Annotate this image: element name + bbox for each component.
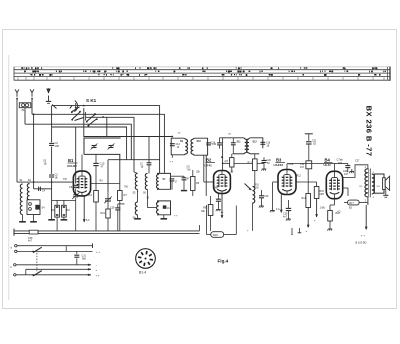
wire bus3 (86, 117, 134, 172)
wire osc caps link (171, 175, 185, 177)
capacitor C21 (305, 133, 313, 135)
tube B3 (278, 170, 296, 195)
antenna A2 (30, 89, 34, 92)
switch SK2a (33, 247, 42, 252)
capacitor C13 (170, 143, 175, 145)
wire stub x66 (65, 246, 67, 252)
capacitor C15 (216, 198, 221, 200)
svg-text:5k6: 5k6 (82, 258, 87, 261)
IF2 right box (251, 138, 263, 148)
coil box S4 (27, 200, 40, 215)
svg-text:6k8: 6k8 (214, 187, 219, 190)
svg-text:1B: 1B (313, 143, 316, 146)
wire y200.4 (52, 199, 76, 201)
volume pot R10 (253, 187, 255, 204)
wire B2 top (222, 138, 224, 171)
tuning gang frame (84, 138, 121, 154)
IF2 left box (233, 153, 244, 155)
wire bus2 (32, 114, 164, 173)
resistor R8 (208, 205, 213, 216)
svg-text:B1: B1 (68, 158, 74, 163)
wire bus1 (52, 106, 160, 174)
resistor R19 (211, 232, 224, 238)
tube socket B1-4 (136, 249, 156, 269)
svg-text:+: + (314, 219, 316, 223)
capacitor C3b (49, 174, 54, 176)
page edge (scan border) (3, 30, 397, 309)
svg-text:R2: R2 (67, 208, 71, 212)
antenna coil S2 (27, 184, 29, 200)
svg-text:C19: C19 (264, 195, 269, 198)
switch link dashed (36, 253, 38, 271)
svg-text:0M7: 0M7 (320, 193, 325, 196)
capacitor C18 (260, 141, 265, 143)
capacitor C14 (206, 142, 211, 144)
earth terminal E (47, 89, 51, 93)
svg-text:S11: S11 (237, 140, 242, 143)
svg-text:C29: C29 (110, 207, 115, 210)
svg-text:S12: S12 (253, 140, 258, 143)
terminal d (14, 274, 16, 276)
resistor R4 (94, 191, 99, 203)
svg-text:7k5: 7k5 (124, 186, 129, 189)
svg-text:S K1: S K1 (86, 98, 97, 103)
svg-text:447: 447 (344, 173, 349, 176)
wire C2 vertical (51, 106, 53, 143)
svg-text:UL41: UL41 (324, 163, 332, 167)
capacitor C12b (170, 178, 175, 180)
IF1 left gnd (171, 155, 173, 158)
svg-text:1M: 1M (255, 187, 258, 190)
resistor R1 (55, 205, 60, 217)
svg-text:R12: R12 (297, 175, 302, 178)
IF2 left gnd (232, 154, 234, 157)
svg-text:R7: R7 (124, 193, 128, 197)
svg-text:+: + (306, 229, 308, 233)
svg-text:R17: R17 (349, 202, 354, 205)
grid line B1 (17, 181, 73, 183)
wire left col x33.6 (33, 114, 35, 189)
wire gang bottom-right (119, 160, 121, 191)
osc coil S5 (135, 173, 137, 189)
wire C11b col (148, 137, 150, 163)
svg-text:+G: +G (337, 210, 341, 214)
wire S5-S8 (137, 190, 139, 203)
capacitor C16 (217, 142, 222, 144)
svg-text:1 BU: 1 BU (320, 205, 326, 209)
wire B4 screen (343, 187, 348, 189)
chassis S1 (22, 215, 24, 222)
svg-text:++: ++ (221, 211, 225, 214)
svg-text:C8: C8 (69, 185, 73, 189)
heater lead B1 (83, 196, 85, 222)
heater bus pair (14, 230, 200, 232)
svg-text:+ +: + + (174, 215, 178, 218)
resistor R21 (106, 209, 110, 218)
svg-text:5%: 5% (377, 186, 380, 188)
ground B3 grid (272, 208, 274, 211)
svg-text:C18: C18 (266, 142, 271, 144)
chassis S4 (33, 215, 35, 222)
trimmer C11 (105, 198, 111, 200)
wire y159.7 (108, 159, 160, 161)
terminal c (14, 264, 16, 266)
heater lead B2 (221, 194, 223, 219)
svg-text:1B: 1B (44, 162, 47, 165)
svg-text:R19: R19 (213, 233, 218, 237)
svg-text:C16: C16 (211, 142, 216, 144)
svg-text:B3: B3 (276, 157, 282, 162)
wire OPT bottom (367, 197, 369, 205)
wire switch col x75 (75, 127, 77, 184)
svg-text:148: 148 (55, 144, 60, 148)
svg-text:R1: R1 (51, 208, 55, 212)
terminal b (15, 250, 17, 252)
svg-text:R14: R14 (302, 197, 307, 200)
svg-text:BX 236 B -77: BX 236 B -77 (365, 106, 374, 157)
svg-text:1B: 1B (267, 145, 270, 147)
wire row5 (16, 274, 91, 276)
terminal a (15, 245, 17, 247)
wire antenna A1 down (16, 100, 18, 183)
chassis S9 (163, 215, 165, 219)
wire row3 (16, 264, 91, 266)
fuse box F1 (19, 103, 31, 108)
heater lead B3 (280, 195, 282, 213)
capacitor C13c (182, 177, 187, 179)
tube B4 (326, 171, 342, 198)
capacitor C19 (259, 195, 264, 197)
osc coil S8 lower (135, 202, 137, 215)
svg-text:+ +: + + (96, 273, 100, 277)
variable capacitor C4 (92, 145, 97, 147)
wire B4 plate (343, 165, 368, 178)
resistor R16 (334, 199, 336, 205)
IF1 left box (171, 138, 183, 155)
wire B2 junction dots (221, 156, 223, 158)
resistor R9 (230, 158, 234, 167)
svg-text:+ +: + + (170, 161, 174, 164)
switch SK2b (33, 271, 42, 276)
wire bus6 (AVC line) (84, 136, 173, 138)
wire bus4 (25, 124, 131, 160)
wire row1 (17, 245, 93, 247)
svg-text:1B: 1B (55, 177, 58, 180)
capacitor C25 (286, 207, 291, 209)
wire osc lower link (147, 190, 149, 208)
IF1 right box (195, 138, 208, 155)
svg-text:UF41: UF41 (205, 163, 213, 167)
scan fold shadow (8, 55, 10, 300)
chassis S8 (137, 215, 139, 219)
speaker (374, 174, 384, 193)
tube B1 (73, 171, 90, 196)
resistor R7 (118, 191, 123, 201)
osc box S9 lower (157, 201, 171, 215)
band switch SK1 contacts (75, 103, 77, 108)
capacitor C5b (38, 187, 40, 191)
svg-text:C7ab: C7ab (337, 158, 344, 162)
svg-text:R21: R21 (101, 212, 106, 215)
resistor R14 (306, 194, 311, 208)
svg-text:−: − (96, 263, 98, 267)
svg-text:UAF42: UAF42 (274, 163, 284, 167)
ground C20 (263, 167, 265, 170)
stub x292 (291, 228, 293, 234)
svg-text:7n5: 7n5 (187, 168, 192, 171)
svg-text:UCH42: UCH42 (67, 164, 77, 168)
capacitor C17 (231, 142, 236, 144)
svg-text:F A: F A (276, 208, 280, 211)
svg-text:Fig.4: Fig.4 (218, 258, 229, 263)
svg-text:5%: 5% (359, 186, 362, 188)
resistor R15 (314, 187, 319, 199)
resistor R17 (348, 200, 360, 205)
capacitor C29 (115, 207, 120, 209)
svg-text:B1-4: B1-4 (139, 270, 146, 274)
resistor R20 (fuse) (29, 231, 32, 234)
wire B3 grid left (273, 181, 279, 183)
svg-text:S10: S10 (197, 140, 202, 143)
svg-text:R11: R11 (248, 162, 253, 165)
trimmer C9 (75, 188, 77, 193)
resistor R2 (62, 205, 67, 217)
svg-text:247: 247 (300, 166, 305, 169)
svg-text:C27: C27 (355, 160, 360, 163)
svg-text:4n7: 4n7 (283, 216, 288, 219)
svg-text:4n7: 4n7 (28, 240, 33, 243)
svg-text:R4: R4 (89, 193, 93, 197)
dial scale strip (14, 69, 390, 71)
wire B1 top (81, 155, 83, 172)
coil L19 (306, 161, 312, 169)
AVC line y188.8 (34, 188, 52, 190)
IF1 out verticals (203, 155, 205, 182)
wire C10 col (95, 154, 97, 163)
svg-text:B4: B4 (325, 157, 331, 162)
capacitor C8 (73, 184, 78, 186)
variable capacitor C5 (109, 145, 114, 147)
resistor R11 (253, 159, 258, 171)
wire row2 (17, 250, 93, 252)
wire bus5 (52, 127, 127, 160)
stub x299.5 (299, 228, 301, 233)
svg-text:B 103 8D: B 103 8D (356, 241, 367, 245)
capacitor C28 (345, 165, 350, 167)
svg-text:C13: C13 (176, 144, 181, 146)
antenna A1 (15, 89, 19, 92)
svg-text:+ +: + + (361, 234, 366, 238)
osc coil S6 (145, 173, 147, 189)
wire row4 (26, 268, 91, 270)
svg-text:B2: B2 (206, 158, 212, 163)
wire B3 top bus (287, 163, 335, 165)
output transformer secondary (372, 174, 374, 194)
ground C15 (217, 207, 219, 210)
svg-text:C24: C24 (289, 162, 294, 166)
capacitor C11b (147, 162, 152, 164)
capacitor C2 (49, 142, 54, 144)
capacitor C31 (76, 251, 78, 254)
svg-text:+ +: + + (96, 250, 100, 254)
capacitor C10 (93, 162, 98, 164)
tube B2 (214, 171, 231, 194)
resistor R6 (191, 177, 195, 191)
antenna coil S1 (20, 184, 22, 215)
capacitor C20 (262, 160, 267, 162)
output transformer core (368, 169, 370, 198)
osc box S7 (157, 173, 171, 189)
output transformer S14 primary (365, 169, 368, 197)
svg-text:1B: 1B (141, 166, 144, 168)
wire fuse to bus (24, 108, 26, 125)
